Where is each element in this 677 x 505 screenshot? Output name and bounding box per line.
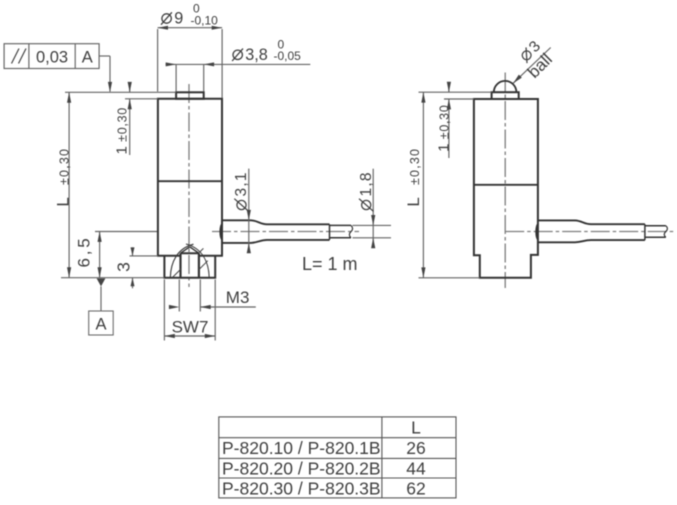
hatch left: [173, 269, 182, 278]
svg-text:3,8: 3,8: [245, 46, 268, 64]
arrow 3 top: [131, 247, 135, 256]
right view ext body top: [444, 98, 474, 100]
nut top face: [181, 252, 199, 254]
right view ext top: [419, 91, 492, 93]
dia9 ext right: [221, 29, 223, 98]
fcf leader vertical: [109, 56, 111, 92]
right view: body outline with bottom steps: [474, 99, 538, 278]
left cable grommet arc: [220, 224, 222, 240]
svg-text:L: L: [411, 418, 421, 438]
arrow dia3.8 left: [166, 62, 176, 66]
arrow 6.5 top: [98, 232, 102, 242]
dim line 3 upper: [132, 247, 134, 256]
svg-text:-0,05: -0,05: [274, 49, 302, 63]
svg-text:0,03: 0,03: [36, 48, 68, 66]
M3 ext left: [178, 280, 180, 312]
fcf leader horizontal: [99, 55, 110, 57]
arrow dia3.1 top: [247, 210, 251, 220]
datum A triangle: [97, 278, 106, 286]
ball leader line: [513, 48, 551, 84]
ext line bottom left view: [61, 277, 164, 279]
svg-text:M3: M3: [226, 288, 250, 307]
svg-text:1±0,30: 1±0,30: [114, 107, 131, 154]
arrow SW7 left: [164, 334, 174, 338]
svg-text:P-820.20 / P-820.2B: P-820.20 / P-820.2B: [222, 458, 381, 478]
left view: body split line: [158, 180, 222, 182]
dim line 3 lower: [132, 278, 134, 289]
arrow dia1.8 top: [371, 215, 375, 225]
right view: centerline horizontal: [505, 231, 675, 233]
right view dim 1 upper: [448, 86, 450, 93]
left view: step line right: [199, 255, 223, 257]
left view: centerline vertical: [188, 84, 190, 287]
ext line body top left view: [125, 98, 158, 100]
svg-text:SW7: SW7: [172, 318, 209, 337]
SW7 ext left: [163, 280, 165, 341]
dome arc left: [170, 244, 193, 277]
right view: top cap: [492, 92, 519, 99]
svg-text:P-820.10 / P-820.1B: P-820.10 / P-820.1B: [222, 438, 381, 458]
left view: body: [158, 99, 222, 256]
left view: bottom hex section: [164, 256, 215, 278]
left cable step: [329, 224, 331, 240]
left cable break: [349, 225, 352, 237]
ext line 3 top (step): [130, 255, 159, 257]
arrow 6.5 bottom: [98, 267, 102, 277]
arrow dia9 left: [158, 26, 168, 30]
dia1.8 ext top: [353, 224, 392, 226]
nut chamfer right: [190, 247, 199, 253]
datum A stem: [100, 286, 102, 311]
svg-text:1±0,30: 1±0,30: [435, 104, 452, 151]
right view: body split line: [474, 184, 538, 186]
svg-text:A: A: [82, 48, 93, 66]
dia3.8 ext right: [203, 64, 205, 91]
SW7 dim line: [164, 335, 215, 337]
right cable grommet arc: [536, 224, 538, 240]
left cable thin section: [330, 225, 352, 237]
arrow 1 right top: [447, 82, 451, 92]
hatch right lower: [199, 261, 208, 270]
arrow 1 left bottom: [128, 99, 132, 109]
dia3.8 ext left: [175, 64, 177, 91]
arrow fcf leader: [108, 82, 112, 92]
nut flat left: [179, 253, 181, 277]
dim line 6.5: [99, 232, 101, 278]
arrow ball leader: [513, 75, 522, 84]
SW7 ext right: [214, 280, 216, 341]
svg-text:A: A: [95, 316, 106, 334]
arrow dia9 right: [212, 26, 222, 30]
arrow 1 right bottom: [447, 99, 451, 109]
right cable outline: [538, 220, 645, 242]
svg-text:62: 62: [406, 478, 425, 498]
arrow 3 bottom: [131, 278, 135, 287]
arrow M3 right: [200, 305, 210, 309]
label dia3.8: [232, 38, 301, 65]
hatch right upper: [199, 248, 203, 252]
nut flat right: [198, 253, 200, 277]
arrow dia1.8 bottom: [371, 238, 375, 248]
right cable thin section: [645, 226, 666, 238]
dim line 1 left upper: [129, 86, 131, 93]
svg-text:3: 3: [114, 262, 134, 272]
arrow SW7 right: [205, 334, 215, 338]
datum A box: [89, 311, 114, 335]
arrow L left top: [67, 92, 71, 102]
label dia9: [161, 2, 218, 28]
dia3.1 dim line: [248, 169, 250, 252]
svg-text:6,5: 6,5: [75, 235, 94, 267]
svg-text:44: 44: [406, 458, 426, 478]
dia3.8 dim line: [166, 63, 311, 65]
svg-text:L= 1 m: L= 1 m: [302, 254, 358, 274]
dia1.8 ext bottom: [353, 237, 392, 239]
right cable step: [644, 224, 646, 240]
ext line top surface left view: [65, 91, 176, 93]
right view ext bottom: [419, 277, 480, 279]
svg-text:9: 9: [174, 10, 183, 28]
arrow L right bottom: [421, 267, 425, 277]
right view L dim line: [422, 92, 424, 278]
svg-text:1,8: 1,8: [358, 171, 375, 196]
dia9 dim line: [158, 27, 223, 29]
parallel symbol: [12, 49, 20, 64]
thin lines group: [61, 28, 551, 341]
label dia1.8 rotated: [358, 171, 375, 211]
arrow L right top: [421, 92, 425, 102]
arrow L left bottom: [67, 267, 71, 277]
dia1.8 dim line: [372, 169, 374, 246]
left view: cable centerline horizontal: [212, 231, 359, 233]
label dia3 ball: [517, 38, 544, 65]
arrow M3 left: [169, 305, 179, 309]
M3 dim line: [200, 306, 256, 308]
right view: ball: [494, 81, 517, 92]
dia9 ext left: [157, 29, 159, 92]
feature control frame: [4, 44, 99, 69]
left view: step line left: [157, 255, 181, 257]
nut chamfer left: [181, 247, 190, 253]
arrow 1 left top: [128, 82, 132, 92]
dim line 1 left lower: [129, 99, 131, 155]
svg-text:P-820.30 / P-820.3B: P-820.30 / P-820.3B: [222, 478, 381, 498]
svg-text:26: 26: [406, 438, 425, 458]
ext line 6.5 top: [95, 231, 157, 233]
M3 ext right: [199, 280, 201, 312]
right cable break: [664, 226, 667, 238]
arrow dia3.1 bottom: [247, 243, 251, 253]
right view dim 1 lower: [448, 99, 450, 158]
table: [219, 417, 456, 498]
svg-text:-0,10: -0,10: [191, 14, 219, 28]
arrow dia3.8 right: [204, 62, 214, 66]
L dim line left view: [68, 92, 70, 277]
label dia3.1 rotated: [233, 171, 250, 211]
arrows: [67, 26, 522, 338]
right view: centerline vertical: [504, 73, 506, 289]
left view: top cap: [176, 92, 204, 99]
dome arc right: [186, 244, 209, 278]
svg-text:3,1: 3,1: [233, 171, 250, 196]
left cable outline: [222, 220, 330, 243]
